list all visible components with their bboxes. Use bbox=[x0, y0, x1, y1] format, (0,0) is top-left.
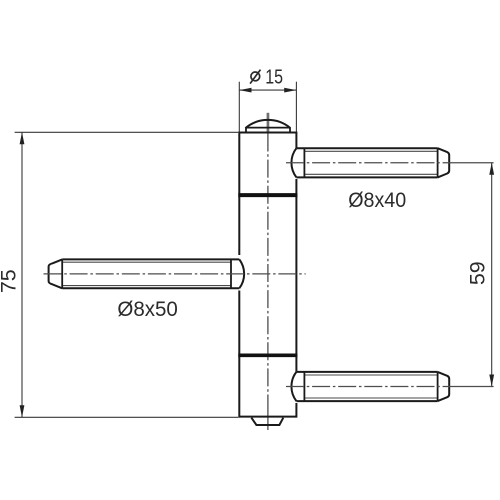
svg-text:15: 15 bbox=[265, 66, 283, 89]
left pin shaft (⌀8x50) bbox=[62, 259, 239, 288]
left pin center line bbox=[44, 273, 306, 275]
top right pin collar junction bbox=[303, 148, 305, 177]
bottom right pin thread root lines bbox=[304, 375, 437, 398]
top right pin ball bulge bbox=[291, 148, 296, 177]
dimension 59 arrow top bbox=[489, 163, 494, 175]
dimension ⌀15 label bbox=[250, 66, 283, 89]
top right pin center line bbox=[286, 162, 494, 164]
knuckle joint line bottom bbox=[238, 353, 297, 357]
top right pin tip bbox=[438, 148, 450, 177]
left pin collar junction bbox=[230, 259, 232, 288]
dimension 59 line bbox=[491, 163, 493, 387]
bottom right pin center line bbox=[286, 386, 494, 388]
dimension ⌀15 line bbox=[239, 89, 296, 91]
dimension ⌀15 arrow right bbox=[284, 88, 296, 93]
dimension 59 arrow bottom bbox=[489, 375, 494, 387]
svg-text:75: 75 bbox=[0, 269, 20, 293]
barrel bottom tip bbox=[251, 418, 283, 425]
dimension 59 label bbox=[466, 261, 490, 285]
bottom right pin ball bulge bbox=[291, 372, 296, 401]
dome cap slot bbox=[267, 113, 270, 133]
barrel center line bbox=[267, 134, 269, 431]
top right pin shaft (⌀8x40) bbox=[296, 148, 437, 177]
label ⌀8x40 bbox=[348, 189, 406, 212]
dimension 75 line bbox=[21, 132, 23, 417]
bottom right pin shaft (⌀8x40) bbox=[296, 372, 437, 401]
knuckle joint line top bbox=[238, 193, 297, 197]
svg-text:Ø8x50: Ø8x50 bbox=[117, 298, 178, 321]
left pin ball bulge bbox=[239, 259, 244, 288]
left pin thread root lines bbox=[62, 262, 231, 285]
left pin tip bbox=[49, 259, 63, 288]
dimension 75 arrow bottom bbox=[20, 405, 25, 417]
dimension ⌀15 arrow left bbox=[239, 88, 251, 93]
bottom right pin tip bbox=[438, 372, 450, 401]
label ⌀8x50 bbox=[117, 298, 178, 321]
svg-text:59: 59 bbox=[466, 261, 490, 285]
dimension 75 label bbox=[0, 269, 20, 293]
dimension 75 extension lines bbox=[15, 132, 239, 417]
bottom right pin collar junction bbox=[303, 372, 305, 401]
top right pin thread root lines bbox=[304, 151, 437, 174]
dome cap bbox=[245, 120, 290, 133]
dimension 75 arrow top bbox=[20, 132, 25, 144]
svg-text:Ø8x40: Ø8x40 bbox=[348, 189, 406, 212]
dimension ⌀15 extension lines bbox=[239, 82, 296, 132]
hinge barrel outline bbox=[239, 132, 296, 418]
